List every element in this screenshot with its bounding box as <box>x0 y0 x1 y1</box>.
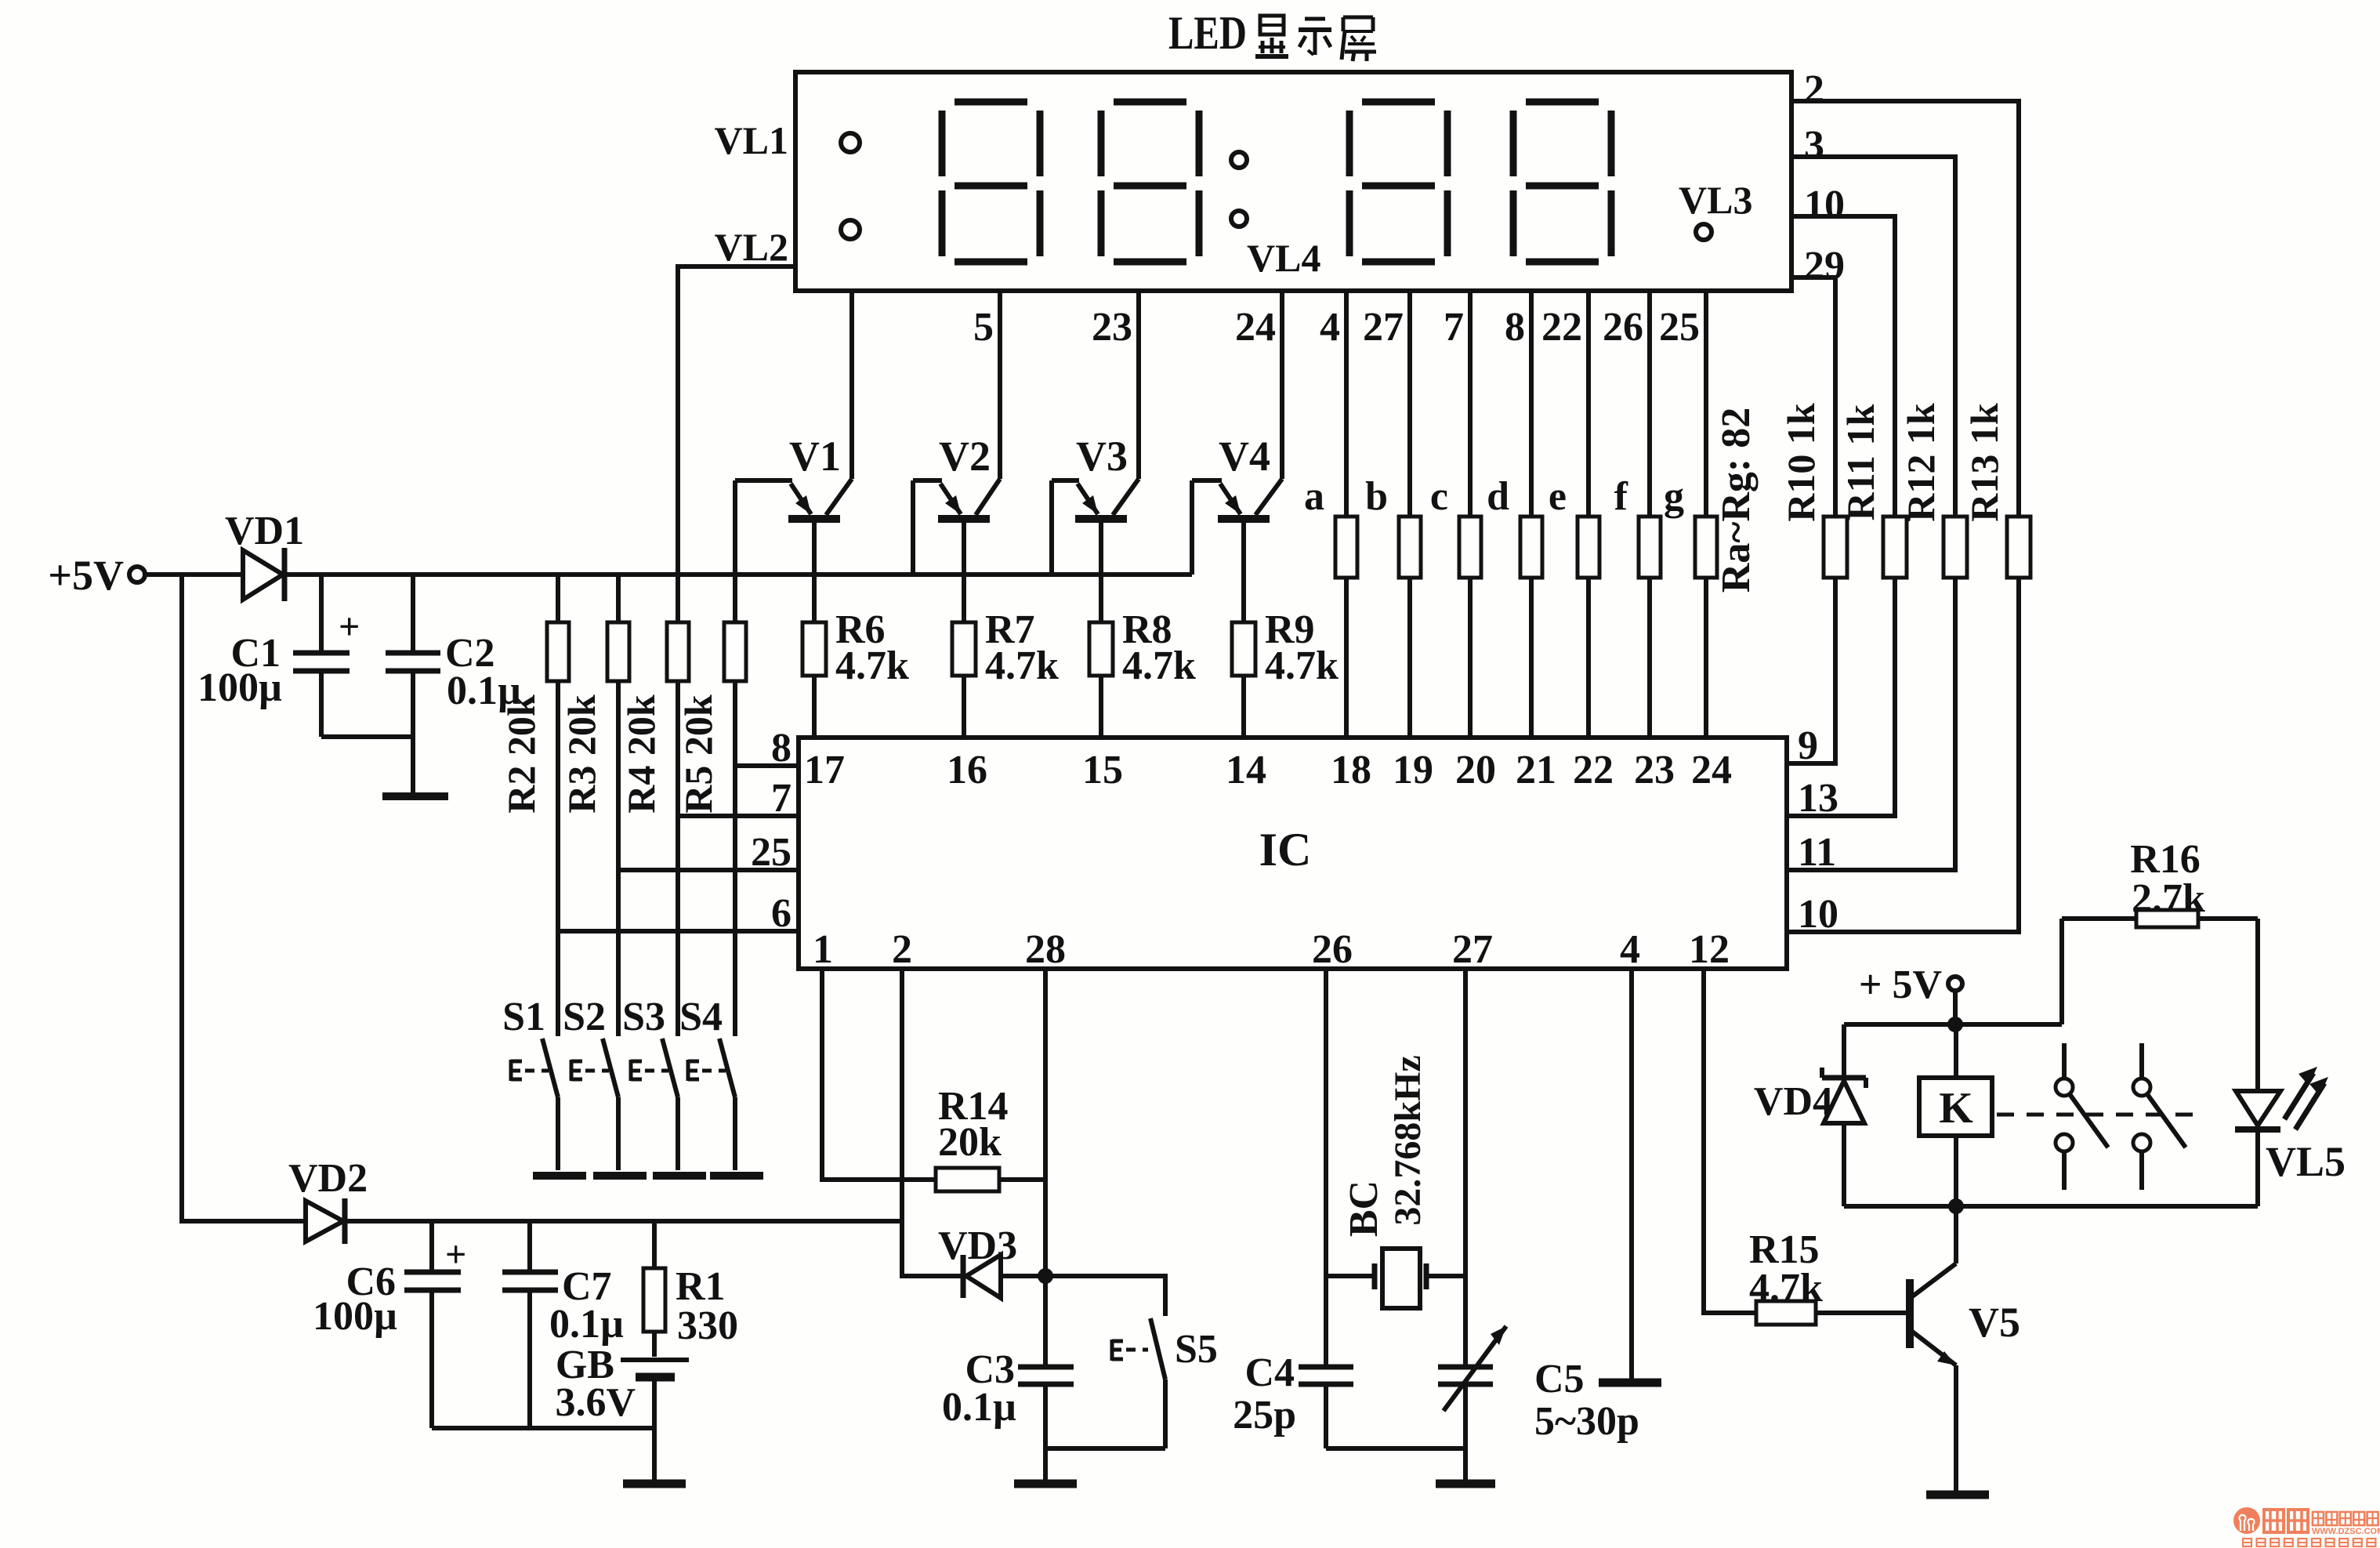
pin 18 label <box>1331 748 1371 792</box>
pin 27 label <box>1452 927 1493 972</box>
wire (base down) <box>1241 519 1246 622</box>
switch S5 <box>1112 1318 1218 1448</box>
wire (relay bottom rail) <box>1844 1204 2258 1209</box>
pin 1 label <box>813 927 833 972</box>
resistor R15 4.7k <box>1749 1227 1823 1325</box>
svg-text:R5 20k: R5 20k <box>676 694 720 814</box>
svg-text:26: 26 <box>1603 305 1643 350</box>
wire (V5 emitter down) <box>1954 1365 1958 1491</box>
wire (VL2 line from display to R4 column) <box>678 266 795 575</box>
diode VD2 <box>288 1156 368 1244</box>
svg-text:C4: C4 <box>1244 1350 1295 1395</box>
wire (base down) <box>962 519 966 622</box>
svg-text:4.7k: 4.7k <box>1122 643 1196 688</box>
resistor Rg 82 <box>1664 474 1717 738</box>
wire (V5 collector up) <box>1954 1206 1958 1263</box>
svg-text:S1: S1 <box>502 995 545 1039</box>
svg-text:1: 1 <box>813 927 833 972</box>
capacitor C7 0.1u <box>502 1221 624 1428</box>
svg-text:c: c <box>1430 474 1448 519</box>
relay contact <box>2056 1043 2108 1190</box>
svg-text:100µ: 100µ <box>313 1294 397 1339</box>
ground (S1) <box>533 1172 586 1180</box>
diode VD4 (zener) <box>1754 1024 1866 1206</box>
ground (C3) <box>1014 1480 1077 1488</box>
transistor V3 <box>1052 433 1139 519</box>
resistor R16 2.7k <box>2062 837 2258 1091</box>
svg-text:VD4: VD4 <box>1754 1079 1833 1124</box>
svg-text:V2: V2 <box>939 433 991 480</box>
svg-text:23: 23 <box>1634 748 1675 792</box>
capacitor C3 0.1u <box>942 1276 1074 1448</box>
wire (IC pin 11 stub) <box>1787 868 1955 872</box>
svg-text:V1: V1 <box>789 433 841 480</box>
pin 3 label <box>1804 123 1824 168</box>
wire (IC pin 26 column) <box>1324 969 1328 1365</box>
resistor R11 1k <box>1838 404 1907 578</box>
svg-text:VD3: VD3 <box>938 1224 1017 1268</box>
wire +5V rail <box>145 572 1192 577</box>
pin 7 label <box>771 776 792 821</box>
pin 4 label <box>1320 305 1340 350</box>
svg-text:a: a <box>1304 474 1324 519</box>
wire (IC pin 13 stub) <box>1787 814 1895 818</box>
pin 22 label <box>1573 748 1614 792</box>
svg-text:20k: 20k <box>938 1120 1002 1165</box>
svg-text:+ 5V: + 5V <box>1859 963 1942 1007</box>
svg-text:+5V: +5V <box>48 552 124 599</box>
svg-text:15: 15 <box>1082 748 1123 792</box>
pin 2 label <box>1804 67 1824 112</box>
wire (IC pin 7 stub) <box>678 814 799 818</box>
ground (battery) <box>623 1480 686 1488</box>
wire (IC pin 8 stub) <box>735 763 799 768</box>
wire (R10 to IC) <box>1787 578 1835 763</box>
transistor V5 <box>1910 1263 2020 1365</box>
svg-text:7: 7 <box>771 776 792 821</box>
ground (oscillator) <box>1436 1480 1495 1488</box>
resistor R10 1k <box>1779 403 1847 578</box>
svg-text:VL3: VL3 <box>1679 178 1752 222</box>
resistor R12 1k <box>1899 403 1967 578</box>
display segment pin 26 wire <box>1647 291 1652 517</box>
pin 17 label <box>804 748 845 792</box>
wire (R4 column to S3) <box>676 681 680 1036</box>
ground (S3) <box>653 1172 706 1180</box>
svg-text:28: 28 <box>1025 927 1066 972</box>
svg-text:R4 20k: R4 20k <box>619 694 663 814</box>
ground (S2) <box>593 1172 647 1180</box>
wire (VD2 rail) <box>347 1219 902 1224</box>
svg-text:VL5: VL5 <box>2266 1138 2346 1185</box>
LED display module outline <box>795 72 1791 291</box>
pin 21 label <box>1516 748 1556 792</box>
pin 15 label <box>1082 748 1123 792</box>
svg-text:Ra~Rg: 82: Ra~Rg: 82 <box>1714 408 1759 593</box>
wire (left branch down to VD2) <box>182 575 304 1221</box>
svg-text:3.6V: 3.6V <box>555 1380 636 1425</box>
display pin 3 wire <box>1791 157 1955 517</box>
resistor R7 4.7k <box>952 607 1059 738</box>
svg-text:R12 1k: R12 1k <box>1899 403 1943 522</box>
pin 7 label <box>1444 305 1464 350</box>
diode VD1 <box>225 509 304 601</box>
resistor Re 82 <box>1549 474 1599 738</box>
pin 16 label <box>947 748 987 792</box>
node (V5 collector junction) <box>1948 1198 1964 1214</box>
svg-text:32.768kHz: 32.768kHz <box>1387 1055 1429 1225</box>
wire (emitter to +5V rail) <box>1049 480 1054 575</box>
wire (contact linkage, dashed) <box>1997 1113 2194 1117</box>
transistor V4 <box>1192 433 1282 519</box>
LED VL2 <box>715 220 860 269</box>
display segment pin 22 wire <box>1586 291 1591 517</box>
svg-text:330: 330 <box>677 1303 738 1348</box>
wire (R5 column to S4) <box>733 681 737 1036</box>
wire (relay top rail) <box>1844 1022 2062 1027</box>
node (VD3 junction) <box>1038 1268 1053 1284</box>
ground (V5 emitter) <box>1926 1491 1989 1499</box>
svg-text:20: 20 <box>1455 748 1496 792</box>
switch S1 <box>502 995 558 1170</box>
7-segment digit 3 <box>1349 102 1447 262</box>
display pin 10 wire <box>1791 216 1895 517</box>
svg-text:27: 27 <box>1452 927 1493 972</box>
pin 28 label <box>1025 927 1066 972</box>
wire (base down) <box>1099 519 1103 622</box>
display segment pin 4 wire <box>1344 291 1349 517</box>
svg-text:29: 29 <box>1804 244 1845 288</box>
wire (R11 to IC) <box>1787 578 1895 816</box>
display digit common wire <box>1280 291 1284 479</box>
7-segment digit 2 <box>1101 102 1199 262</box>
wire (R12 to IC) <box>1787 578 1955 870</box>
ground (C2) <box>382 792 448 800</box>
svg-text:27: 27 <box>1363 305 1404 350</box>
svg-text:b: b <box>1365 474 1388 519</box>
svg-text:S3: S3 <box>622 995 665 1039</box>
svg-text:4.7k: 4.7k <box>985 643 1059 688</box>
pin 23 label <box>1634 748 1675 792</box>
pin 12 label <box>1689 927 1730 972</box>
svg-text:VD2: VD2 <box>288 1156 368 1201</box>
display segment pin 7 wire <box>1468 291 1473 517</box>
svg-text:25: 25 <box>1659 305 1700 350</box>
svg-text:+: + <box>445 1234 466 1275</box>
svg-text:0.1µ: 0.1µ <box>549 1302 624 1347</box>
wire (R15 to V5 base) <box>1816 1311 1910 1315</box>
svg-text:4: 4 <box>1320 305 1340 350</box>
svg-text:K: K <box>1939 1084 1973 1133</box>
display pin 29 wire <box>1791 277 1835 517</box>
resistor R8 4.7k <box>1089 607 1196 738</box>
svg-text:IC: IC <box>1259 824 1312 876</box>
display segment pin 27 wire <box>1407 291 1412 517</box>
wire (IC pin 9 stub) <box>1787 761 1835 766</box>
resistor R2 20k <box>499 575 569 814</box>
svg-text:10: 10 <box>1798 892 1838 937</box>
display segment pin 8 wire <box>1529 291 1534 517</box>
capacitor C1 100u <box>197 575 360 737</box>
switch S4 <box>679 995 735 1170</box>
svg-text:R13 1k: R13 1k <box>1962 403 2006 522</box>
wire (emitter to +5V rail) <box>733 480 737 575</box>
pin 22 label <box>1541 305 1582 350</box>
relay contact <box>2133 1043 2186 1190</box>
switch S3 <box>622 995 678 1170</box>
svg-text:R3 20k: R3 20k <box>560 694 603 814</box>
wire (IC pin 27 column) <box>1463 969 1468 1365</box>
LED VL5 <box>2235 1067 2346 1206</box>
svg-text:R16: R16 <box>2130 837 2201 882</box>
pin 26 label <box>1603 305 1643 350</box>
resistor R4 20k <box>619 575 689 814</box>
svg-text:14: 14 <box>1226 748 1266 792</box>
svg-text:C5: C5 <box>1534 1357 1585 1401</box>
pin 23 label <box>1092 305 1132 350</box>
resistor R1 330 <box>643 1221 738 1357</box>
svg-text:2: 2 <box>892 927 912 972</box>
svg-text:4: 4 <box>1620 927 1640 972</box>
svg-text:+: + <box>339 606 360 647</box>
display pin 2 wire <box>1791 101 2019 517</box>
svg-text:21: 21 <box>1516 748 1556 792</box>
svg-text:2: 2 <box>1804 67 1824 112</box>
resistor Rd 82 <box>1487 474 1542 738</box>
capacitor C2 0.1u <box>386 575 521 795</box>
relay coil K <box>1919 1024 1992 1206</box>
wire (R13 to IC) <box>1787 578 2019 932</box>
svg-text:13: 13 <box>1798 776 1838 821</box>
resistor Rb 82 <box>1365 474 1421 738</box>
svg-text:24: 24 <box>1691 748 1732 792</box>
svg-text:18: 18 <box>1331 748 1371 792</box>
svg-text:VL2: VL2 <box>715 225 788 269</box>
svg-text:d: d <box>1487 474 1509 519</box>
pin 6 label <box>771 891 792 936</box>
pin 10 label <box>1798 892 1838 937</box>
pin 2 label <box>892 927 912 972</box>
display digit common wire <box>1136 291 1141 479</box>
svg-text:R11 1k: R11 1k <box>1838 404 1882 520</box>
svg-text:5: 5 <box>973 305 994 350</box>
pin 24 label <box>1691 748 1732 792</box>
wire (IC pin 2 column) <box>902 969 962 1276</box>
resistor R9 4.7k <box>1232 607 1339 738</box>
title LED display label <box>1168 7 1376 61</box>
svg-text:17: 17 <box>804 748 845 792</box>
7-segment digit 4 <box>1513 102 1611 262</box>
resistor R6 4.7k <box>802 607 909 738</box>
svg-text:5~30p: 5~30p <box>1534 1399 1639 1444</box>
svg-text:26: 26 <box>1312 927 1353 972</box>
svg-text:25: 25 <box>751 830 792 875</box>
pin 14 label <box>1226 748 1266 792</box>
label Ra~Rg: 82 <box>1714 408 1759 593</box>
wire (emitter to +5V rail) <box>1190 480 1194 575</box>
resistor R13 1k <box>1962 403 2030 578</box>
svg-text:9: 9 <box>1798 723 1818 768</box>
7-segment digit 1 <box>942 102 1040 262</box>
resistor Rf 82 <box>1614 474 1661 738</box>
svg-text:6: 6 <box>771 891 792 936</box>
svg-text:22: 22 <box>1573 748 1614 792</box>
pin 20 label <box>1455 748 1496 792</box>
resistor R3 20k <box>560 575 629 814</box>
svg-text:3: 3 <box>1804 123 1824 168</box>
wire (base down) <box>812 519 817 622</box>
wire (C3/S5 bottom bus) <box>1045 1448 1165 1480</box>
pin 5 label <box>973 305 994 350</box>
pin 13 label <box>1798 776 1838 821</box>
svg-text:2.7k: 2.7k <box>2132 876 2205 921</box>
ground (pin 4) <box>1599 1379 1661 1387</box>
resistor R14 20k <box>936 1084 1009 1191</box>
wire (junction to S5) <box>1045 1276 1165 1316</box>
svg-text:22: 22 <box>1541 305 1582 350</box>
svg-text:23: 23 <box>1092 305 1132 350</box>
wire (IC pin 6 stub) <box>558 929 799 934</box>
svg-text:V3: V3 <box>1076 433 1128 480</box>
IC U1 <box>799 738 1787 969</box>
svg-text:19: 19 <box>1393 748 1433 792</box>
node +5V relay terminal <box>1859 963 1962 1024</box>
node +5V input terminal <box>48 552 145 599</box>
node (relay +5V junction) <box>1947 1017 1963 1032</box>
svg-text:f: f <box>1614 474 1628 519</box>
display digit common wire <box>849 291 854 479</box>
battery GB 3.6V <box>555 1343 689 1428</box>
svg-text:11: 11 <box>1798 830 1836 875</box>
pin 4 label <box>1620 927 1640 972</box>
display segment pin 25 wire <box>1704 291 1708 517</box>
pin 27 label <box>1363 305 1404 350</box>
resistor Ra 82 <box>1304 474 1357 738</box>
capacitor C6 100u <box>313 1221 466 1428</box>
svg-text:WWW.DZSC.COM: WWW.DZSC.COM <box>2312 1527 2380 1536</box>
svg-text:10: 10 <box>1804 183 1845 227</box>
pin 24 label <box>1235 305 1276 350</box>
svg-text:S4: S4 <box>679 995 723 1039</box>
pin 26 label <box>1312 927 1353 972</box>
switch S2 <box>563 995 618 1170</box>
pin 11 label <box>1798 830 1836 875</box>
crystal BC 32.768kHz <box>1326 1055 1465 1308</box>
svg-text:8: 8 <box>771 726 792 770</box>
wire (C1 to C2 bottom) <box>321 734 413 739</box>
svg-text:4.7k: 4.7k <box>1749 1266 1823 1311</box>
pin 29 label <box>1804 244 1845 288</box>
pin 25 label <box>751 830 792 875</box>
ground (S4) <box>710 1172 763 1180</box>
svg-text:VL4: VL4 <box>1247 236 1320 280</box>
pin 9 label <box>1798 723 1818 768</box>
wire (IC pin 28 column) <box>1043 969 1048 1276</box>
svg-text:VD1: VD1 <box>225 509 304 553</box>
transistor V1 <box>735 433 852 519</box>
svg-text:VL1: VL1 <box>715 118 788 162</box>
wire (battery negative bus) <box>432 1428 654 1480</box>
watermark logo <box>2233 1507 2380 1546</box>
svg-text:V5: V5 <box>1969 1299 2020 1346</box>
wire (R2 column to S1) <box>556 681 560 1036</box>
pin 25 label <box>1659 305 1700 350</box>
svg-text:R2 20k: R2 20k <box>499 694 543 814</box>
svg-text:7: 7 <box>1444 305 1464 350</box>
display digit common wire <box>998 291 1002 479</box>
wire (emitter to +5V rail) <box>911 480 915 575</box>
wire (R3 column to S2) <box>616 681 621 1036</box>
svg-text:V4: V4 <box>1219 433 1270 480</box>
svg-text:R10 1k: R10 1k <box>1779 403 1823 522</box>
svg-text:R1: R1 <box>676 1264 726 1309</box>
wire (IC pin 4 down) <box>1629 969 1634 1379</box>
svg-text:S5: S5 <box>1175 1327 1218 1372</box>
svg-text:LED: LED <box>1168 7 1247 59</box>
svg-text:S2: S2 <box>563 995 606 1039</box>
LED VL4 (colon) <box>1231 152 1320 280</box>
wire (IC pin 12 to R15) <box>1704 969 1756 1313</box>
svg-text:4.7k: 4.7k <box>835 643 909 688</box>
svg-text:16: 16 <box>947 748 987 792</box>
pin 19 label <box>1393 748 1433 792</box>
resistor R5 20k <box>676 575 746 814</box>
LED VL3 <box>1679 178 1752 240</box>
svg-text:0.1µ: 0.1µ <box>942 1385 1016 1430</box>
svg-text:100µ: 100µ <box>197 665 282 710</box>
wire (IC pin 10 stub) <box>1787 930 2019 934</box>
capacitor C4 25p <box>1233 1350 1353 1448</box>
svg-text:g: g <box>1664 474 1684 519</box>
wire (IC pin 25 stub) <box>618 868 799 872</box>
pin 10 label <box>1804 183 1845 227</box>
svg-text:e: e <box>1549 474 1567 519</box>
pin 8 label <box>1505 305 1525 350</box>
capacitor C5 5~30p (variable) <box>1438 1326 1639 1448</box>
resistor Rc 82 <box>1430 474 1481 738</box>
svg-text:4.7k: 4.7k <box>1265 643 1339 688</box>
wire (C4/C5 bottom bus) <box>1326 1448 1465 1480</box>
transistor V2 <box>913 433 1000 519</box>
LED VL1 <box>715 118 860 162</box>
svg-text:25p: 25p <box>1233 1393 1296 1437</box>
wire (R14 to pin 28 column) <box>999 1177 1045 1182</box>
svg-text:12: 12 <box>1689 927 1730 972</box>
diode VD3 <box>938 1224 1045 1298</box>
pin 8 label <box>771 726 792 770</box>
svg-text:24: 24 <box>1235 305 1276 350</box>
svg-text:BC: BC <box>1342 1180 1386 1237</box>
svg-text:8: 8 <box>1505 305 1525 350</box>
wire (IC pin 1 to R14) <box>822 969 936 1180</box>
